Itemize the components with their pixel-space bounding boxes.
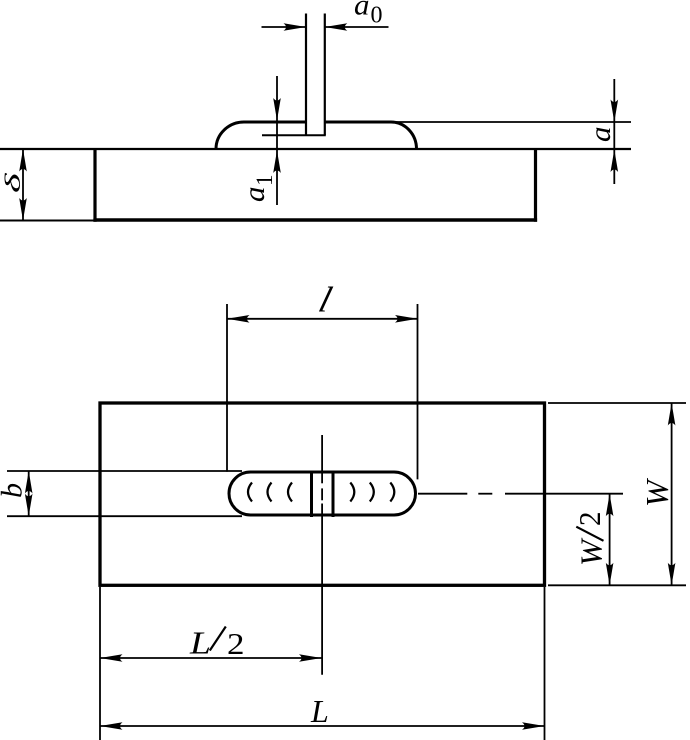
dimension a top arrow (points down): [611, 100, 619, 123]
label L/2: [189, 625, 245, 662]
left extension line below plate: [99, 587, 101, 740]
centerline dash inside nugget: [321, 488, 323, 500]
label W: [639, 477, 675, 507]
centerline below nugget: [321, 504, 323, 675]
svg-text:a: a: [584, 127, 617, 143]
svg-text:L: L: [189, 625, 211, 661]
dash-dot mid line segment 1: [418, 493, 467, 495]
svg-text:2: 2: [572, 512, 607, 527]
weld ripple arc right 1: [350, 483, 354, 502]
label a: [584, 127, 617, 143]
weld ripple arc right 2: [370, 483, 374, 502]
dimension W bottom extension line: [548, 584, 686, 586]
plan rectangle: [100, 403, 545, 585]
dimension b top extension line: [7, 470, 242, 472]
label a1: [238, 175, 277, 203]
dimension b bottom extension line: [7, 515, 242, 517]
label W/2: [572, 512, 609, 567]
dimension b line: [28, 471, 30, 516]
dimension l line: [227, 318, 418, 320]
right extension line below plate: [544, 587, 546, 740]
bar bottom / faying line inside bead: [262, 134, 326, 136]
dimension l left extension line: [226, 304, 228, 472]
dimension W/2 bottom arrow (points down): [606, 563, 614, 586]
dimension a1 top arrow (points down): [273, 98, 281, 121]
svg-text:b: b: [0, 483, 29, 498]
dimension W/2 line: [609, 494, 611, 586]
dimension a bottom arrow (points up): [611, 150, 619, 173]
plate right edge: [534, 149, 537, 222]
dimension L right arrow (points right): [522, 722, 545, 730]
dash-dot mid line segment 2: [478, 493, 492, 495]
dimension l right arrow (points right): [395, 315, 418, 323]
weld bead right half: [325, 122, 417, 149]
dimension a1 bottom arrow (points up): [273, 151, 281, 174]
weld ripple arc left 3: [288, 483, 292, 502]
nugget bar left line: [310, 471, 313, 518]
dimension b bottom arrow (points down): [25, 494, 33, 517]
dimension L/2 right arrow (points right): [299, 654, 322, 662]
dimension W top arrow (points up): [668, 403, 676, 426]
dimension a0 line left: [262, 26, 307, 28]
dimension l left arrow (points left): [227, 315, 250, 323]
dimension W/2 top arrow (points up): [606, 494, 614, 517]
label b: [0, 483, 29, 498]
dimension L line: [100, 725, 545, 727]
svg-text:a: a: [238, 187, 271, 203]
svg-text:2: 2: [227, 626, 245, 661]
svg-text:W: W: [639, 477, 675, 507]
weld ripple arc right 3: [390, 483, 394, 502]
nugget bar right line: [332, 471, 335, 518]
dimension W top extension line: [548, 402, 686, 404]
dash-dot mid line segment 3: [505, 493, 623, 495]
dimension L/2 left arrow (points left): [100, 654, 123, 662]
weld nugget stadium outline: [229, 472, 416, 515]
plate bottom edge: [93, 218, 537, 221]
dimension delta top arrow (points up): [19, 149, 27, 172]
dimension delta bottom arrow (points down): [19, 198, 27, 221]
dimension a1 line: [276, 76, 278, 205]
dimension l right extension line: [417, 304, 419, 479]
dimension delta line: [22, 149, 24, 221]
dimension a0 arrow right (points left): [325, 23, 348, 31]
svg-text:L: L: [310, 693, 329, 729]
weld ripple arc left 1: [248, 483, 252, 502]
dimension a line: [613, 79, 615, 184]
dimension L/2 line: [100, 657, 322, 659]
centerline above nugget: [321, 435, 323, 483]
plate top surface line: [0, 148, 631, 150]
plate bottom extension line (left, for delta): [0, 220, 95, 222]
dimension W line: [671, 403, 673, 585]
weld ripple arc left 2: [268, 483, 272, 502]
electrode bar right line: [324, 14, 326, 136]
svg-text:δ: δ: [1, 172, 26, 193]
dimension a0 line right: [325, 26, 389, 28]
svg-text:a: a: [354, 0, 370, 22]
dimension W bottom arrow (points down): [668, 563, 676, 586]
dimension L left arrow (points left): [100, 722, 123, 730]
svg-text:1: 1: [252, 175, 277, 187]
dimension a0 arrow left (points right): [284, 23, 307, 31]
plate left edge: [93, 148, 96, 222]
weld bead left half: [216, 122, 306, 149]
label a0: [354, 0, 383, 29]
svg-text:0: 0: [371, 3, 383, 29]
label delta: [1, 172, 26, 193]
electrode bar left line: [305, 14, 307, 136]
bead-top extension line for dimension a: [391, 121, 631, 123]
dimension b top arrow (points up): [25, 471, 33, 494]
